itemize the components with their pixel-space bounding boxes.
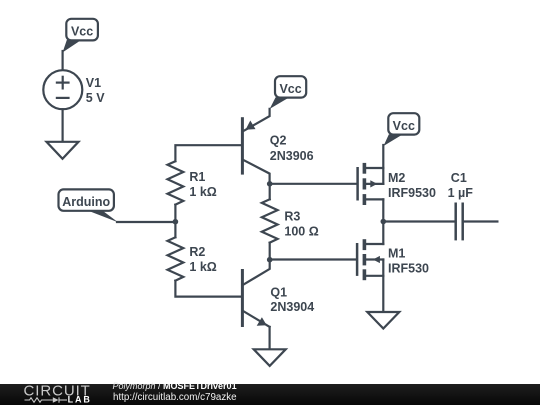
svg-text:Vcc: Vcc xyxy=(71,25,93,39)
wire R1 bottom lead xyxy=(174,205,176,222)
resistor R3 xyxy=(262,199,278,242)
wire top rail to Q2 base xyxy=(175,145,241,161)
net flag Vcc (over Q2) xyxy=(270,76,307,109)
ground (under M1) xyxy=(367,312,399,329)
footer bar xyxy=(0,384,540,405)
CircuitLab logo xyxy=(0,384,100,405)
net flag Arduino xyxy=(59,189,119,222)
svg-text:IRF530: IRF530 xyxy=(388,261,429,275)
svg-text:IRF9530: IRF9530 xyxy=(388,186,436,200)
ground (under V1) xyxy=(47,142,79,159)
svg-text:100 Ω: 100 Ω xyxy=(284,225,318,239)
label R1 1 kOhm xyxy=(189,170,216,199)
wire Q1 emitter to ground xyxy=(269,327,271,349)
wire R3 top lead xyxy=(269,184,271,200)
wire C1 right xyxy=(464,220,497,222)
label V1 5 V xyxy=(86,76,105,105)
transistor Q1 collector xyxy=(244,260,270,285)
svg-text:V1: V1 xyxy=(86,76,101,90)
wire R3 bottom lead xyxy=(269,243,271,260)
transistor Q2 emitter with arrow xyxy=(244,109,270,131)
ground (under Q1) xyxy=(254,349,286,366)
svg-text:Arduino: Arduino xyxy=(62,195,110,209)
wire M1 gate xyxy=(270,258,356,260)
wire M2 gate xyxy=(270,183,357,185)
svg-text:C1: C1 xyxy=(451,171,467,185)
svg-text:R2: R2 xyxy=(189,245,205,259)
transistor Q1 emitter with arrow xyxy=(244,311,270,327)
label M1 IRF530 xyxy=(388,247,429,276)
capacitor C1 xyxy=(456,203,463,241)
svg-text:5 V: 5 V xyxy=(86,91,105,105)
wire R2 top lead xyxy=(174,222,176,238)
svg-text:R1: R1 xyxy=(189,170,205,184)
svg-text:LAB: LAB xyxy=(68,395,92,405)
node junction (M2 drain / M1 drain / C1) xyxy=(381,219,387,225)
svg-text:M1: M1 xyxy=(388,247,405,261)
net flag Vcc (over M2) xyxy=(384,113,420,146)
transistor Q2 collector xyxy=(244,160,270,184)
label C1 1 uF xyxy=(448,171,474,200)
node junction (Q1 collector / R3 / M1 gate) xyxy=(267,257,273,263)
wire Vcc flag to V1 xyxy=(61,51,63,70)
wire Arduino to divider xyxy=(117,221,175,223)
voltage source V1 xyxy=(43,70,82,109)
svg-text:R3: R3 xyxy=(284,210,300,224)
svg-text:1 kΩ: 1 kΩ xyxy=(189,260,216,274)
MOSFET M2 (PMOS) xyxy=(358,163,384,222)
svg-text:Vcc: Vcc xyxy=(279,82,301,96)
resistor R1 xyxy=(168,161,184,204)
wire V1 to ground xyxy=(61,109,63,141)
transistor Q1 base bar xyxy=(241,269,244,327)
resistor R2 xyxy=(168,237,184,280)
svg-text:1 µF: 1 µF xyxy=(448,186,474,200)
label R2 1 kOhm xyxy=(189,245,216,274)
label M2 IRF9530 xyxy=(388,171,436,200)
svg-text:M2: M2 xyxy=(388,171,405,185)
svg-text:Q2: Q2 xyxy=(270,133,287,147)
net flag Vcc (over V1) xyxy=(63,19,98,53)
wire bottom rail to Q1 base xyxy=(175,281,241,297)
svg-text:2N3906: 2N3906 xyxy=(270,149,314,163)
node junction (Q2 collector / R3 / M2 gate) xyxy=(267,181,273,187)
transistor Q2 base bar xyxy=(241,117,244,174)
label Q1 2N3904 xyxy=(270,286,314,315)
wire Vcc to M2 source xyxy=(382,145,384,184)
svg-text:2N3904: 2N3904 xyxy=(270,300,314,314)
svg-text:1 kΩ: 1 kΩ xyxy=(189,185,216,199)
wire node to C1 xyxy=(383,220,454,222)
MOSFET M1 (NMOS) xyxy=(357,222,383,312)
footer title text xyxy=(113,381,237,391)
svg-text:Vcc: Vcc xyxy=(393,119,415,133)
label Q2 2N3906 xyxy=(270,133,314,163)
svg-text:Q1: Q1 xyxy=(270,286,287,300)
label R3 100 Ohm xyxy=(284,210,318,239)
node junction (Arduino / R1 / R2) xyxy=(173,219,179,225)
